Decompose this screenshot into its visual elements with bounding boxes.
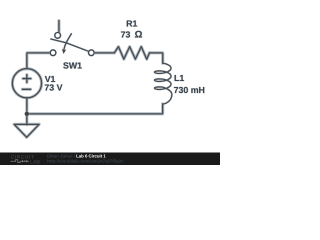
soft halo pass [12,21,162,138]
terminal rings [50,33,94,56]
svg-text:73 Ω: 73 Ω [121,29,143,40]
core pass [12,21,162,138]
svg-text:LAB: LAB [30,159,41,165]
junction dot node A [24,111,29,116]
svg-text:73 V: 73 V [44,83,62,93]
svg-text:R1: R1 [126,19,137,29]
footer bar [0,153,220,166]
svg-text:L1: L1 [174,73,184,83]
svg-text:730 mH: 730 mH [174,85,205,95]
svg-text:http://circuitlab.com/czm2n7a9: http://circuitlab.com/czm2n7a97f5q2v [47,158,124,163]
SW1 arrowhead [62,49,65,53]
CircuitLab logo waveform line [11,160,29,163]
svg-text:SW1: SW1 [63,61,82,71]
